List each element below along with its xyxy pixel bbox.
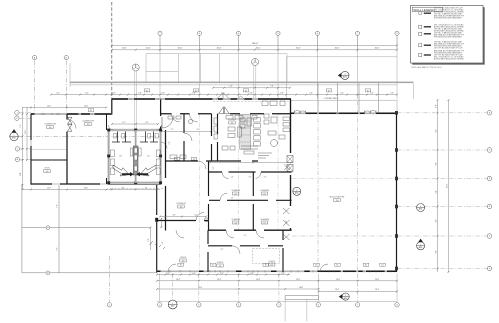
grid line x=199.5 — [199, 35, 201, 99]
svg-text:110: 110 — [231, 122, 234, 124]
grid bubble line x=254.8 double — [253, 65, 255, 99]
bottom-right dim row y=291.4 — [319, 290, 398, 292]
svg-text:13′-4″: 13′-4″ — [217, 279, 221, 281]
grid bubble 2 top — [158, 31, 162, 35]
svg-text:9′-8″: 9′-8″ — [435, 190, 437, 194]
right grid bubble E — [487, 204, 492, 209]
fixtures along y=161 wall — [170, 155, 177, 159]
svg-text:11′-8″: 11′-8″ — [122, 48, 127, 50]
sidewalk lines below — [284, 299, 286, 321]
legend item A — [419, 12, 422, 15]
svg-text:3: 3 — [199, 33, 200, 35]
svg-text:20′-0″: 20′-0″ — [256, 48, 261, 50]
svg-text:4′-8″: 4′-8″ — [435, 104, 437, 108]
west wing west wall x=31 — [30, 114, 32, 185]
svg-text:12′-4″: 12′-4″ — [146, 48, 151, 50]
svg-text:7′-6″: 7′-6″ — [56, 247, 58, 251]
west wing interior wall y=160 — [31, 159, 67, 161]
bottom grid bubble 8 — [395, 303, 399, 307]
door arc room101a — [172, 114, 180, 122]
svg-text:2: 2 — [420, 244, 421, 246]
foyer south wall y=220.5 — [157, 220, 209, 222]
svg-text:2: 2 — [344, 74, 345, 76]
wing interior door arc — [67, 120, 76, 129]
north door 2 — [237, 96, 245, 100]
north wall mullion ticks — [130, 98, 283, 100]
grid bubble 6 top — [315, 31, 319, 35]
left dimension column x=27 — [26, 107, 28, 160]
hall north double door arcs — [294, 110, 306, 113]
top dimension row y=49.8 — [112, 49, 397, 51]
covered patio columns — [317, 83, 319, 112]
grid line x=357.5 through hall — [357, 101, 359, 271]
north wall storefront band y=99 (west of hall) — [112, 98, 291, 100]
corridor west wall x=165.5 — [165, 130, 167, 231]
central block east wall x=290.5 — [290, 100, 292, 231]
svg-text:7′-6″: 7′-6″ — [270, 86, 274, 88]
svg-text:116: 116 — [234, 222, 237, 224]
bottom grid bubble 6 — [316, 303, 320, 307]
small fixtures room 101 — [168, 116, 174, 119]
svg-text:131: 131 — [147, 156, 150, 158]
svg-text:7′-6″: 7′-6″ — [229, 86, 233, 88]
grid bubble D x=254.8 (window type symbol) — [252, 58, 259, 65]
right dimension column x=437.5 — [437, 100, 439, 272]
svg-text:OFFICE: OFFICE — [180, 257, 187, 259]
keynote boxes above north wall — [144, 89, 150, 92]
right grid bubble D — [487, 176, 492, 181]
svg-text:3′-4″: 3′-4″ — [166, 273, 170, 275]
svg-text:20′-0″: 20′-0″ — [375, 48, 380, 50]
serving counters — [241, 145, 258, 147]
svg-text:13′-4″: 13′-4″ — [256, 279, 260, 281]
svg-text:CLASSRM: CLASSRM — [231, 218, 240, 221]
bottom grid bubble 4 — [237, 303, 241, 307]
dashed canopy line below restrooms — [110, 187, 163, 189]
restroom big outline arrow east — [140, 165, 156, 176]
grid bubble 5 top — [276, 31, 280, 35]
serving counter steps — [258, 153, 272, 158]
svg-text:4′-0″: 4′-0″ — [192, 273, 196, 275]
mid-left room east wall x=106.5 — [106, 114, 108, 130]
restroom block south wall y=182.8 — [109, 182, 161, 185]
wall B y=200.3 — [209, 199, 292, 201]
svg-text:8′-0″: 8′-0″ — [122, 187, 125, 189]
svg-text:3′-0″: 3′-0″ — [173, 214, 176, 216]
restroom toilets east — [148, 134, 151, 139]
corridor interior dims — [160, 216, 206, 218]
grid line B vertical x=66.3 — [65, 61, 67, 115]
wall legend box — [411, 6, 484, 64]
kitchen south wall y=161 — [166, 160, 259, 162]
door tag circle on wall — [189, 120, 193, 124]
double door triangles kitchen entry — [219, 107, 230, 114]
interior grid dash x=278 — [277, 114, 279, 230]
south wall door arcs — [168, 264, 176, 272]
bottom section marker 1/A-302 — [168, 300, 177, 309]
svg-text:118: 118 — [336, 200, 339, 202]
bottom wing wall x=283 y230-272 — [282, 230, 284, 272]
extension stubs between bubbles and dim rows — [159, 35, 161, 51]
svg-text:2′-6″: 2′-6″ — [390, 92, 394, 94]
svg-text:5′-4″: 5′-4″ — [340, 92, 344, 94]
svg-text:4: 4 — [238, 33, 239, 35]
restroom toilets west — [114, 134, 117, 139]
grid bubble A top-left — [32, 55, 36, 59]
vestibule dimension y=124 — [112, 123, 158, 125]
corridor door arc east of restrooms — [161, 142, 168, 149]
interior grid dash x=238.5 — [238, 114, 240, 230]
restroom stall partitions west room — [112, 132, 131, 143]
pantry hatched band — [240, 115, 251, 150]
svg-text:8: 8 — [397, 304, 398, 306]
svg-text:13′-4″: 13′-4″ — [335, 289, 339, 291]
svg-text:4′-0″: 4′-0″ — [220, 273, 224, 275]
interior door arcs — [198, 161, 206, 169]
east wall x=396.5 — [396, 113, 398, 272]
svg-text:6′-2″: 6′-2″ — [85, 92, 89, 94]
svg-text:121: 121 — [219, 265, 222, 267]
svg-text:PROVIDE MOISTURE RESISTANT: PROVIDE MOISTURE RESISTANT — [434, 17, 463, 20]
svg-text:11′-6″: 11′-6″ — [25, 130, 27, 134]
svg-text:130: 130 — [119, 156, 122, 158]
svg-text:CLASSRM: CLASSRM — [231, 189, 240, 192]
svg-text:7′-8″: 7′-8″ — [171, 129, 174, 131]
bottom grid stubs above bubbles — [172, 274, 174, 302]
left grid bubble J — [15, 111, 19, 115]
svg-text:13′-4″: 13′-4″ — [375, 289, 379, 291]
svg-text:12′-0″: 12′-0″ — [47, 105, 51, 107]
kitchen counters below interior wall — [226, 116, 233, 120]
svg-text:3′-0″: 3′-0″ — [112, 92, 116, 94]
svg-text:4′-0″: 4′-0″ — [281, 273, 285, 275]
svg-text:8′-0″: 8′-0″ — [20, 172, 22, 176]
svg-text:STOR: STOR — [45, 168, 51, 170]
svg-text:7′-4″: 7′-4″ — [145, 187, 148, 189]
south wall storefront band y=271.3 — [157, 270, 397, 272]
play area west line x=21.9 — [21, 184, 23, 273]
svg-text:7: 7 — [357, 304, 358, 306]
left dimension column x=22.5 — [22, 107, 24, 190]
svg-text:117: 117 — [263, 222, 266, 224]
column tick on west lower wall — [155, 218, 158, 222]
section marker top patio 2/A-302 left arrow — [341, 71, 349, 79]
svg-text:9′-8″: 9′-8″ — [435, 129, 437, 133]
svg-text:1: 1 — [345, 295, 346, 297]
svg-text:OFFICE: OFFICE — [217, 262, 224, 264]
restroom big outline arrow west — [113, 165, 129, 176]
svg-text:115: 115 — [263, 193, 266, 195]
vertical grid x=109.4 bottom — [108, 256, 110, 302]
kitchen round table — [271, 140, 278, 147]
hall north wall mullion ticks — [310, 112, 389, 114]
wall A door arcs — [222, 172, 229, 179]
kitchen mid counters — [228, 127, 235, 131]
interior dim row y=131.3 rooms — [162, 130, 211, 132]
dashed rect bottom wing — [253, 249, 280, 264]
west wing north wall y=114 (storefront band) — [31, 113, 112, 115]
legend title — [412, 7, 442, 11]
grid bubble 4 top — [236, 31, 240, 35]
restroom center wall x=135.7 — [135, 130, 137, 183]
svg-text:2: 2 — [159, 33, 160, 35]
restroom block east wall x=160.6 — [159, 130, 162, 183]
svg-text:13′-0″: 13′-0″ — [84, 187, 88, 189]
left grid bubble L — [15, 147, 19, 151]
room101 divider x=184 — [183, 114, 185, 161]
restroom block north wall y=130 hatched — [109, 129, 161, 132]
grid bubble 3 top — [197, 31, 201, 35]
svg-text:3: 3 — [198, 304, 199, 306]
north wall black segments — [112, 98, 291, 100]
canopy horizontals — [146, 53, 287, 55]
bottom grid bubble 7 — [355, 303, 359, 307]
svg-text:105: 105 — [46, 171, 49, 173]
svg-text:CORRIDOR: CORRIDOR — [176, 203, 186, 205]
svg-text:9′-8″: 9′-8″ — [435, 219, 437, 223]
svg-text:5: 5 — [277, 33, 278, 35]
bottom section marker 1/A-301 left arrow — [342, 293, 349, 300]
dim cluster near building west lower — [150, 228, 152, 250]
extra kitchen fixtures — [240, 118, 245, 122]
svg-text:20′-0″: 20′-0″ — [335, 48, 340, 50]
svg-text:7: 7 — [357, 33, 358, 35]
corridor east wall x=208.5 — [208, 161, 210, 231]
vestibule east door arc — [162, 117, 173, 128]
corridor east wall x=208 y230-272 — [207, 230, 209, 272]
play area target circle bottom — [46, 271, 50, 275]
canopy verticals — [69, 63, 71, 87]
svg-text:6: 6 — [318, 304, 319, 306]
bottom dimension row y=280.8 — [157, 280, 397, 282]
svg-text:13′-4″: 13′-4″ — [375, 279, 379, 281]
covered patio outline — [287, 56, 397, 58]
svg-text:L: L — [17, 149, 18, 151]
svg-text:J: J — [16, 112, 17, 114]
svg-text:104: 104 — [49, 127, 52, 129]
legend item D — [419, 44, 422, 47]
svg-text:PROVIDE MOISTURE RESISTANT: PROVIDE MOISTURE RESISTANT — [434, 35, 463, 38]
grid line x=238.5 — [238, 35, 240, 99]
svg-text:100: 100 — [180, 206, 183, 208]
svg-text:CLASSRM: CLASSRM — [260, 218, 269, 221]
patio slab edge line y=100.2 — [291, 99, 397, 101]
interior grid dash x=199.3 — [198, 114, 200, 272]
svg-text:KITCHEN: KITCHEN — [228, 119, 237, 121]
svg-text:57′-4″: 57′-4″ — [446, 183, 448, 188]
restroom plumbing chase center — [133, 146, 138, 175]
svg-text:20′-0″: 20′-0″ — [296, 48, 301, 50]
grid line x=318 through hall — [317, 101, 319, 271]
svg-text:5′-4″: 5′-4″ — [56, 92, 60, 94]
wall y=230.2 — [209, 229, 292, 231]
section marker right with up triangle — [417, 242, 425, 250]
north-west jog wall x=111.8 — [111, 99, 113, 115]
svg-text:4′-0″: 4′-0″ — [161, 92, 165, 94]
svg-text:13′-4″: 13′-4″ — [176, 279, 180, 281]
section marker left 2/A-301 — [10, 132, 18, 140]
bottom grid bubble 5 — [277, 303, 281, 307]
bottom dimension row y=274.6 — [157, 274, 290, 276]
svg-text:OFFICE: OFFICE — [268, 261, 275, 263]
room number boxes 101a/101b — [174, 158, 180, 161]
dashed roof overhang line kitchen y=101.1 — [213, 100, 290, 102]
legend item B — [419, 25, 422, 28]
grid bubble B top-left — [64, 55, 68, 59]
bottom grid bubble 2 — [158, 303, 162, 307]
right grid bubble G — [487, 266, 492, 271]
west wing window in west wall — [30, 140, 32, 146]
horiz grid dash through hall y=236 — [292, 235, 396, 237]
svg-text:1: 1 — [109, 304, 110, 306]
svg-text:ATTEN. BATT INSULATION. EXTEND: ATTEN. BATT INSULATION. EXTEND — [434, 58, 465, 61]
east wall column X boxes — [287, 156, 293, 163]
restroom exit arrow west solid — [122, 172, 134, 176]
horiz grid line y=136 through west wing — [19, 135, 161, 137]
svg-text:4: 4 — [238, 304, 239, 306]
restroom west wall fixtures — [110, 150, 114, 157]
svg-text:13′-4″: 13′-4″ — [336, 279, 340, 281]
legend item E — [419, 53, 422, 56]
svg-text:9′-8″: 9′-8″ — [435, 250, 437, 254]
svg-text:1: 1 — [172, 303, 173, 305]
svg-text:16′-8″: 16′-8″ — [299, 287, 303, 289]
horiz grid lines right side — [397, 112, 487, 114]
svg-text:2: 2 — [296, 190, 297, 192]
kitchen dim row y=87.8 — [213, 87, 290, 89]
grid bubble 8 top — [395, 31, 399, 35]
svg-text:13′-0″: 13′-0″ — [84, 105, 88, 107]
svg-text:114: 114 — [234, 193, 237, 195]
grid line x=278 — [277, 35, 279, 99]
horiz grid dash through hall y=178.5 — [292, 178, 396, 180]
svg-text:5/8″ GYP. BD. EACH SIDE OF 3-5: 5/8″ GYP. BD. EACH SIDE OF 3-5/8″ — [434, 47, 463, 50]
svg-text:4′-1″: 4′-1″ — [145, 122, 149, 124]
svg-text:9′-4″: 9′-4″ — [197, 129, 200, 131]
svg-text:4′-8″: 4′-8″ — [280, 92, 284, 94]
west wing divider wall x=67 — [66, 114, 68, 184]
stoop outline — [285, 296, 318, 300]
section marker 2/A-302 right of central block — [293, 187, 301, 195]
south wall mullion ticks — [170, 270, 390, 272]
right grid bubble B — [487, 111, 492, 116]
grid line x=357.5 top — [357, 35, 359, 99]
west wing south wall y=184 — [31, 183, 161, 185]
grid bubble C x=135.7 (window type symbol) — [132, 64, 139, 71]
door arc room101b — [190, 114, 198, 122]
interior north wall y=113.8 — [161, 113, 291, 115]
classroom divider x=253.3 — [252, 172, 254, 231]
svg-text:3: 3 — [420, 206, 421, 208]
svg-text:13′-4″: 13′-4″ — [296, 279, 300, 281]
restroom stall partitions east room — [140, 132, 158, 143]
svg-text:3′-6″: 3′-6″ — [249, 92, 253, 94]
svg-text:7′-2″: 7′-2″ — [20, 124, 22, 128]
grid line x=160 — [159, 35, 161, 99]
keynote boxes above wing wall — [88, 109, 94, 112]
svg-text:5′-0″: 5′-0″ — [370, 92, 374, 94]
west wing shelf line y=149.5 — [32, 149, 66, 151]
restroom sinks flanking chase — [130, 148, 133, 156]
kitchen east counters — [283, 117, 290, 121]
door symbol west wing hourglass — [68, 117, 72, 124]
room101 east wall x=211.5 — [211, 114, 213, 161]
svg-text:4′-0″: 4′-0″ — [250, 273, 254, 275]
svg-text:5: 5 — [278, 304, 279, 306]
bottom wing wall y=245.8 — [208, 245, 283, 247]
foyer door circle element — [205, 218, 209, 222]
restroom east wall fixtures — [156, 150, 160, 157]
grid line x=397 top — [396, 35, 398, 57]
bottom grid bubble 1 — [107, 303, 111, 307]
restroom exit arrow east solid — [136, 172, 148, 176]
svg-text:5′-0″: 5′-0″ — [309, 92, 313, 94]
bottom bubble connector line y=301.3 — [157, 300, 397, 302]
svg-text:2: 2 — [159, 304, 160, 306]
svg-text:7′-6″: 7′-6″ — [56, 204, 58, 208]
west lower wall x=156.7 — [156, 185, 158, 273]
svg-text:4′-1″: 4′-1″ — [122, 122, 126, 124]
restroom corner column marks — [107, 129, 110, 132]
svg-text:32′-4″: 32′-4″ — [198, 287, 202, 289]
hall north wall y=113.3 — [291, 112, 397, 114]
lobby fixtures east — [262, 101, 268, 106]
grid line A vertical x=34.6 — [34, 61, 36, 115]
svg-text:20′-0″: 20′-0″ — [217, 48, 222, 50]
legend item C — [419, 32, 422, 35]
svg-text:NOTE: ALL WALLS TYPE ‘A’ U.N.O: NOTE: ALL WALLS TYPE ‘A’ U.N.O. — [412, 66, 443, 69]
svg-text:6: 6 — [317, 33, 318, 35]
restroom block west wall x=108.7 — [107, 130, 110, 183]
kitchen west equipment — [214, 118, 218, 124]
svg-text:2: 2 — [13, 135, 14, 137]
dimension row y=94.6 above north wall — [51, 94, 397, 96]
keynote boxes above south wall — [178, 263, 184, 266]
top overall dimension row y=45.5 — [112, 45, 397, 47]
interior dim row y=162.5 — [210, 162, 291, 164]
svg-text:9′-8″: 9′-8″ — [435, 162, 437, 166]
svg-text:8: 8 — [396, 33, 397, 35]
play area top line y=227.6 — [22, 227, 151, 229]
wing top mullion ticks — [42, 113, 92, 115]
svg-text:COVERED PATIO: COVERED PATIO — [324, 97, 339, 100]
west wing north wall black segments — [31, 113, 112, 115]
canopy band line 1 (gray fascia) — [70, 81, 413, 83]
door leaves x283-290 zigzag lower — [283, 165, 290, 241]
svg-text:WALL LEGEND: WALL LEGEND — [413, 8, 435, 12]
kitchen west wall x=217.5 — [217, 114, 219, 161]
dimension row under wing y=189.5 — [23, 189, 161, 191]
grid bubble line x=135.7 double — [134, 71, 136, 130]
svg-text:5′-8″: 5′-8″ — [192, 92, 196, 94]
svg-text:CLASSRM: CLASSRM — [260, 189, 269, 192]
kitchen island column x=253.5 — [254, 118, 260, 123]
svg-text:12′-0″: 12′-0″ — [47, 187, 51, 189]
right dimension column x=448.5 — [448, 100, 450, 272]
east wall column marks — [395, 111, 398, 114]
door leaves x283-290 zigzag upper — [283, 208, 290, 226]
bottom grid bubble 3 — [197, 303, 201, 307]
grid line heavy dashed x=111.8 — [111, 2, 113, 115]
canopy band line 2 — [70, 84, 397, 86]
svg-text:MULTI-PURPOSE: MULTI-PURPOSE — [330, 197, 345, 199]
svg-text:122: 122 — [270, 264, 273, 266]
svg-text:6′-0″: 6′-0″ — [148, 238, 150, 241]
svg-text:20′-0″: 20′-0″ — [178, 48, 183, 50]
play area bottom line y=272.8 — [22, 272, 157, 274]
grid line x=317.5 top — [317, 35, 319, 99]
north double door 1 — [216, 93, 230, 100]
